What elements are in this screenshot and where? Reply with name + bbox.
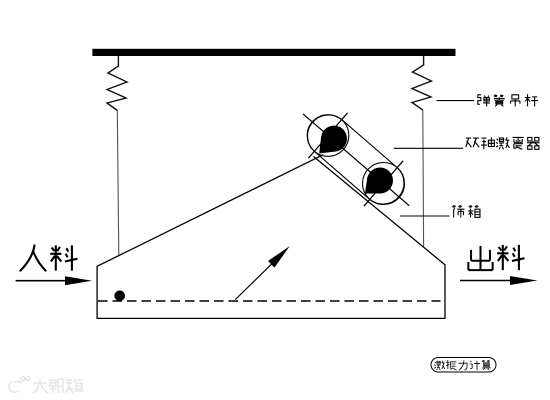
text 入料 (feed) <box>20 245 77 270</box>
eccentric mass 2 <box>365 168 393 194</box>
text 出料 (discharge) <box>468 245 524 270</box>
eccentric mass 1 <box>319 126 347 154</box>
wire: left hanger rod <box>117 111 119 257</box>
leader line: screen box label <box>400 215 450 217</box>
spring hanger right (zigzag) <box>412 56 432 110</box>
axis tick through circle 1 <box>308 113 347 158</box>
dual-axis exciter: stadium housing <box>308 115 404 204</box>
screen box outline <box>97 155 445 319</box>
material ball <box>114 291 125 302</box>
badge text 激振力计算 <box>434 360 490 370</box>
leader line: spring hanger label <box>437 100 475 102</box>
badge frame 激振力计算 <box>431 358 496 373</box>
discharge arrow (出料) <box>460 280 515 282</box>
watermark <box>9 377 84 394</box>
label 筛箱 (screen box) <box>452 206 480 218</box>
wire: right hanger rod <box>422 110 425 247</box>
exciter circle 1 <box>307 115 349 157</box>
ceiling bar <box>92 49 455 56</box>
spring hanger left (zigzag) <box>107 56 127 111</box>
leader line: exciter label <box>394 147 463 149</box>
exciter circle 2 <box>363 163 405 205</box>
dashed deck line <box>98 300 441 302</box>
label 双轴激震器 (dual-axis exciter) <box>466 137 540 149</box>
vibration direction arrow <box>235 263 272 299</box>
axis tick through circle 2 <box>364 161 403 206</box>
feed arrow (入料) <box>16 280 70 282</box>
exciter axis line <box>303 114 409 206</box>
label 弹簧吊杆 (spring hanger) <box>478 94 538 106</box>
